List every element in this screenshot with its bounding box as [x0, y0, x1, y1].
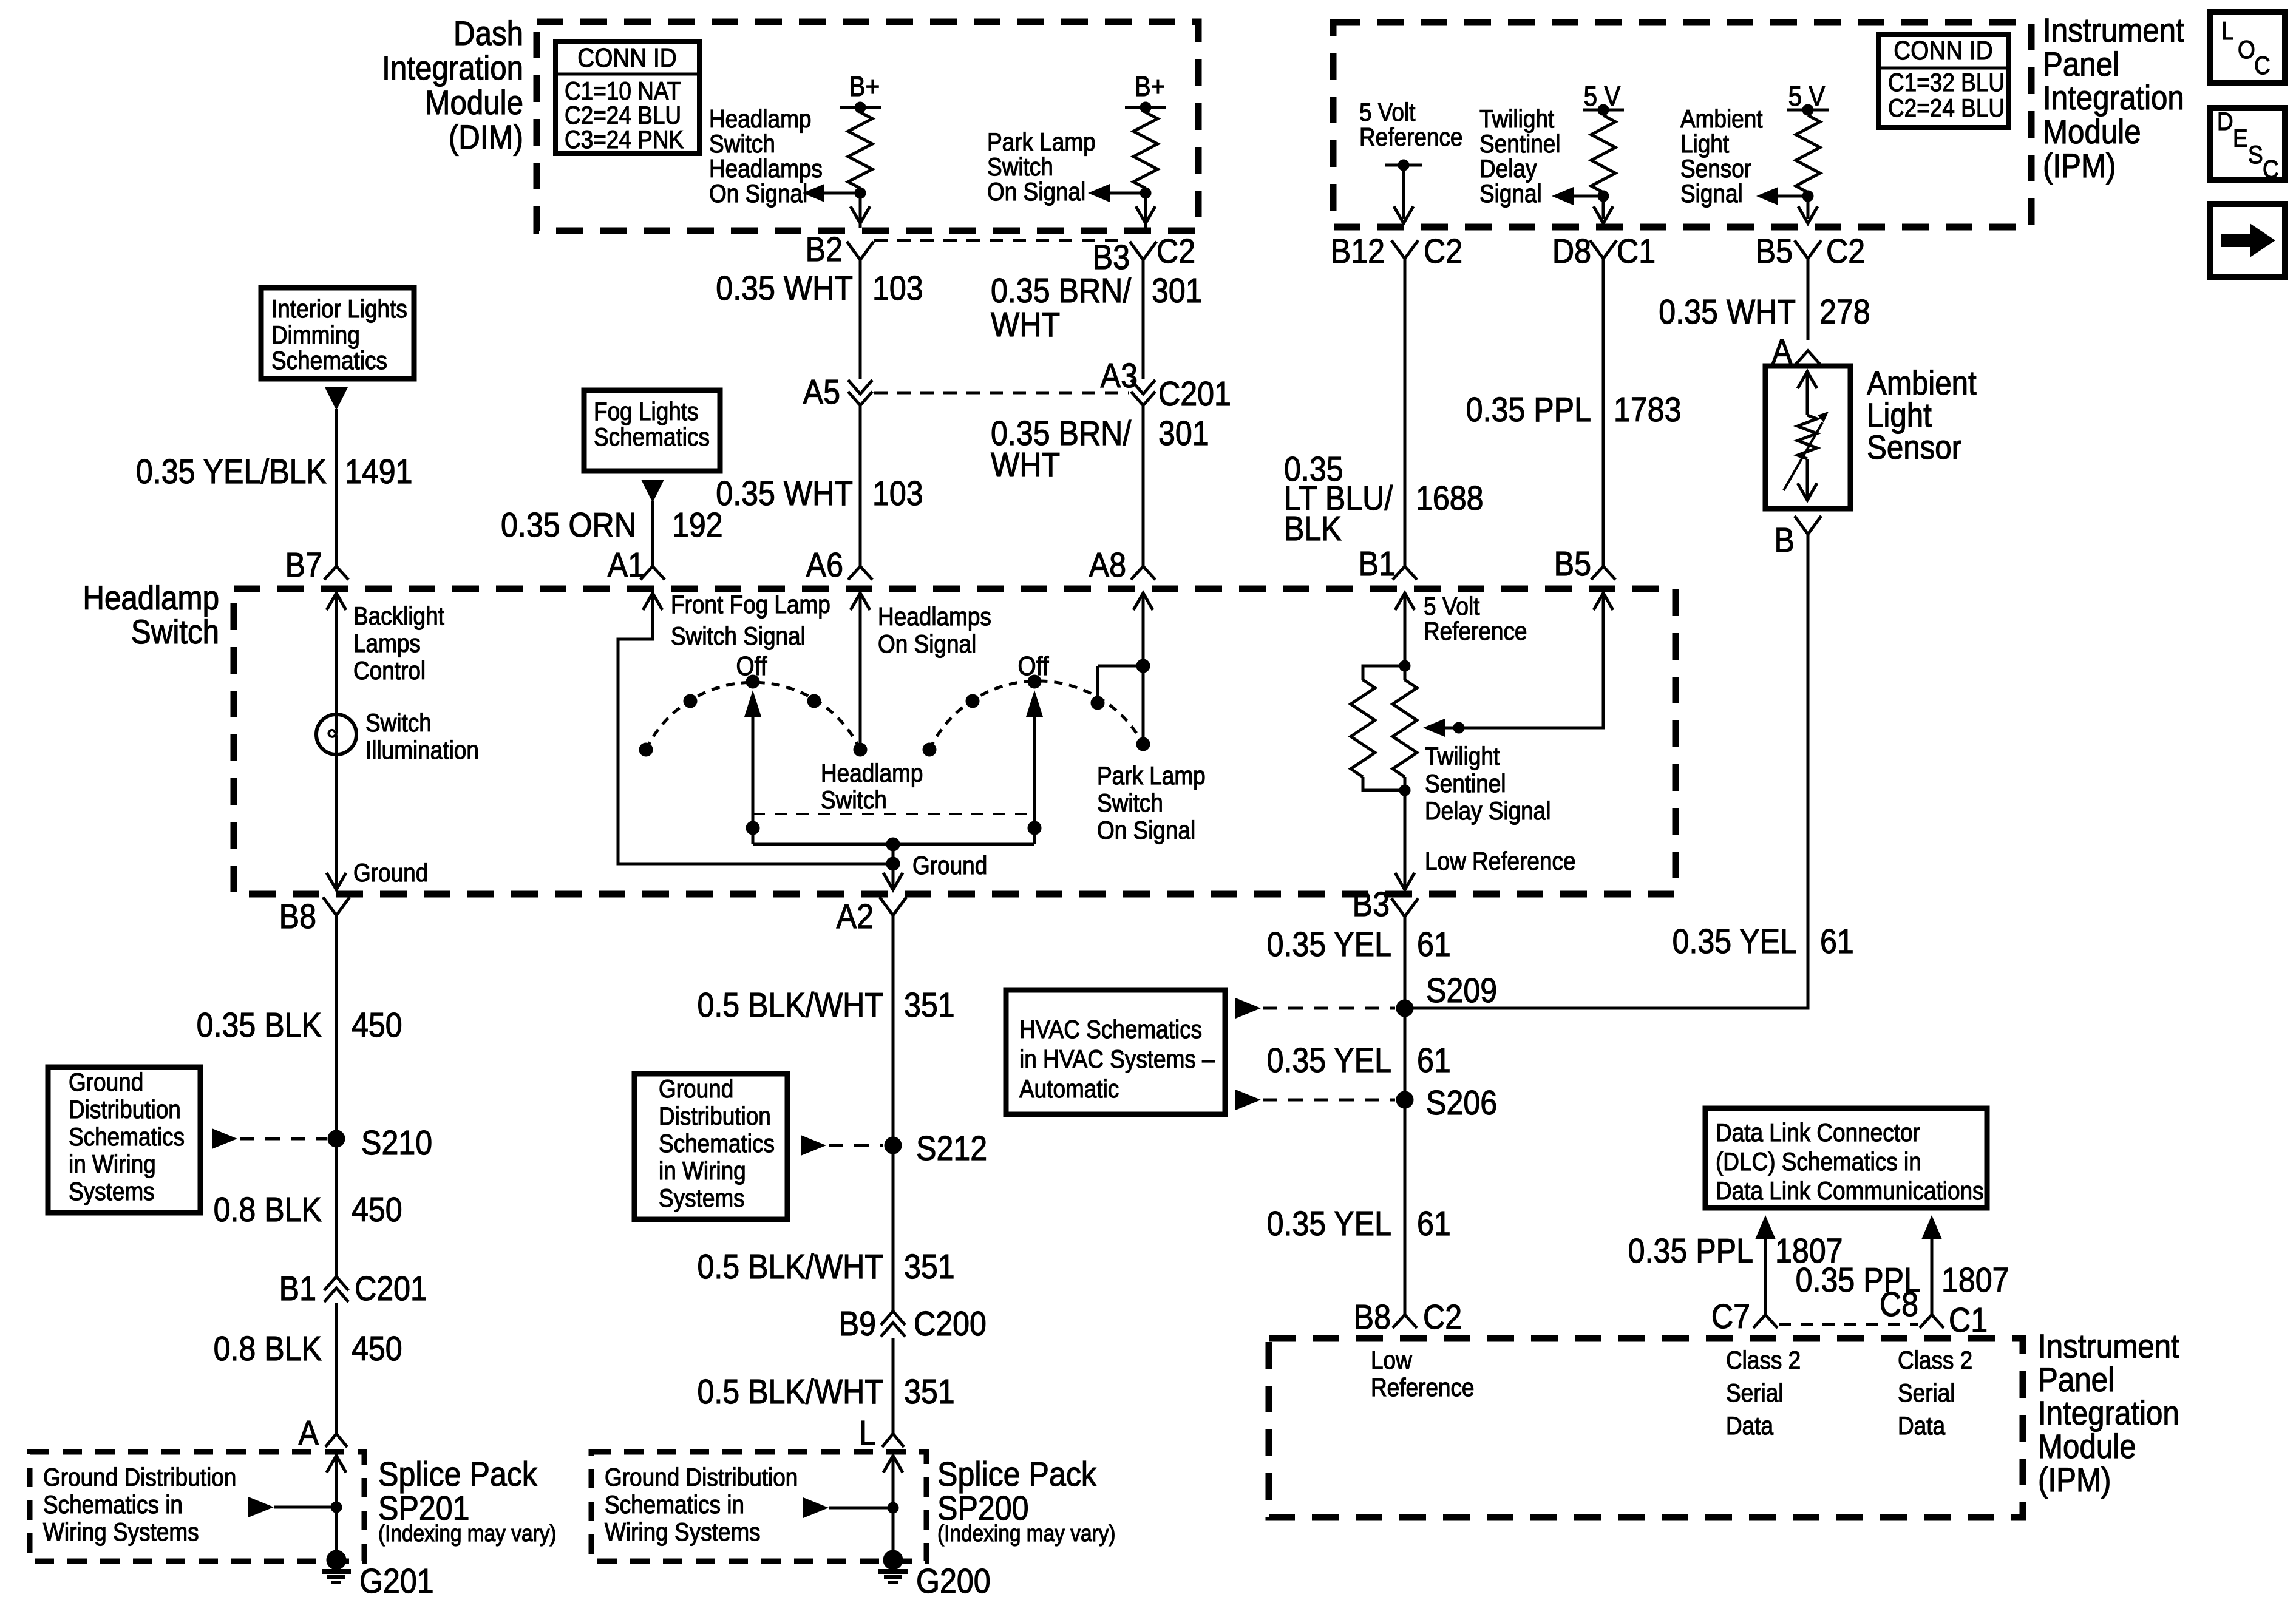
svg-text:A6: A6 [806, 546, 843, 585]
svg-text:CONN ID: CONN ID [1894, 35, 1992, 66]
svg-text:S212: S212 [916, 1129, 987, 1168]
svg-text:A: A [1772, 332, 1793, 371]
svg-text:C2: C2 [1156, 232, 1195, 271]
svg-text:Panel: Panel [2043, 46, 2119, 84]
svg-text:0.35 YEL: 0.35 YEL [1267, 1041, 1391, 1080]
svg-text:Sensor: Sensor [1680, 155, 1751, 183]
svg-text:61: 61 [1417, 925, 1451, 964]
svg-text:B: B [1775, 521, 1795, 560]
svg-text:C7: C7 [1711, 1297, 1750, 1336]
svg-text:Serial: Serial [1898, 1379, 1955, 1408]
svg-text:0.35 BLK: 0.35 BLK [197, 1006, 322, 1045]
svg-text:0.35 WHT: 0.35 WHT [716, 474, 853, 513]
svg-text:Integration: Integration [2038, 1394, 2179, 1432]
svg-text:B8: B8 [279, 897, 316, 936]
svg-text:351: 351 [904, 1372, 955, 1411]
svg-text:Signal: Signal [1479, 180, 1542, 208]
svg-text:D8: D8 [1552, 232, 1591, 271]
svg-text:Switch: Switch [821, 786, 887, 815]
svg-text:Park Lamp: Park Lamp [987, 128, 1096, 157]
svg-text:0.8 BLK: 0.8 BLK [214, 1329, 322, 1368]
svg-text:61: 61 [1417, 1204, 1451, 1243]
svg-text:1807: 1807 [1941, 1261, 2009, 1300]
svg-text:450: 450 [352, 1006, 402, 1045]
svg-text:Front Fog Lamp: Front Fog Lamp [671, 591, 830, 619]
svg-text:Schematics: Schematics [271, 347, 387, 375]
svg-text:Integration: Integration [382, 49, 523, 87]
svg-text:Schematics: Schematics [594, 423, 710, 452]
svg-text:Ground: Ground [353, 859, 428, 887]
svg-text:in HVAC Systems –: in HVAC Systems – [1019, 1045, 1215, 1074]
svg-text:301: 301 [1152, 271, 1203, 310]
svg-text:Off: Off [736, 651, 767, 681]
svg-text:(Indexing may vary): (Indexing may vary) [378, 1520, 557, 1546]
svg-text:301: 301 [1158, 414, 1209, 453]
svg-text:Twilight: Twilight [1425, 742, 1500, 771]
svg-text:1783: 1783 [1614, 390, 1682, 429]
svg-text:Switch: Switch [365, 709, 432, 737]
svg-text:B3: B3 [1353, 885, 1390, 924]
svg-text:Switch: Switch [987, 153, 1053, 181]
svg-text:A3: A3 [1101, 356, 1138, 395]
svg-text:S: S [2248, 141, 2263, 169]
svg-text:Backlight: Backlight [353, 602, 444, 631]
svg-text:0.35 YEL: 0.35 YEL [1673, 922, 1797, 961]
svg-text:Switch: Switch [131, 613, 219, 651]
svg-text:Data: Data [1726, 1412, 1773, 1440]
svg-text:A: A [299, 1414, 319, 1453]
svg-text:Delay: Delay [1479, 155, 1537, 183]
svg-text:(DIM): (DIM) [449, 118, 523, 157]
svg-text:(Indexing may vary): (Indexing may vary) [937, 1520, 1116, 1546]
svg-text:C2: C2 [1424, 232, 1462, 271]
svg-text:Distribution: Distribution [69, 1096, 181, 1124]
svg-text:C201: C201 [1158, 375, 1231, 413]
svg-text:0.35 BRN/: 0.35 BRN/ [991, 271, 1131, 310]
svg-text:0.35 WHT: 0.35 WHT [716, 269, 853, 308]
svg-text:Switch Signal: Switch Signal [671, 622, 806, 651]
svg-text:On Signal: On Signal [1097, 816, 1195, 845]
svg-text:Panel: Panel [2038, 1361, 2114, 1399]
svg-text:Illumination: Illumination [365, 736, 479, 765]
svg-text:Module: Module [425, 84, 523, 122]
svg-text:Splice Pack: Splice Pack [937, 1455, 1096, 1494]
svg-text:61: 61 [1820, 922, 1854, 961]
svg-text:B7: B7 [285, 546, 322, 585]
svg-text:Distribution: Distribution [659, 1102, 771, 1131]
svg-text:L: L [2221, 17, 2234, 46]
svg-text:1491: 1491 [345, 452, 413, 491]
svg-text:C1: C1 [1617, 232, 1656, 271]
svg-text:Schematics in: Schematics in [605, 1491, 744, 1519]
svg-text:450: 450 [352, 1329, 402, 1368]
svg-text:Ground: Ground [69, 1068, 143, 1097]
svg-text:Ambient: Ambient [1680, 105, 1763, 134]
svg-text:C8: C8 [1880, 1285, 1918, 1324]
svg-text:Class 2: Class 2 [1726, 1346, 1801, 1375]
svg-text:B8: B8 [1354, 1298, 1391, 1337]
svg-text:Reference: Reference [1359, 123, 1462, 152]
svg-text:0.5 BLK/WHT: 0.5 BLK/WHT [697, 986, 883, 1025]
svg-text:Schematics: Schematics [659, 1130, 775, 1158]
svg-text:Light: Light [1680, 130, 1729, 158]
svg-text:Module: Module [2043, 113, 2141, 151]
svg-text:A2: A2 [837, 897, 874, 936]
svg-text:B1: B1 [279, 1269, 316, 1308]
svg-text:Interior Lights: Interior Lights [271, 295, 407, 324]
svg-text:Low: Low [1371, 1346, 1412, 1375]
svg-text:B+: B+ [1135, 72, 1166, 103]
svg-text:G200: G200 [916, 1562, 991, 1601]
svg-text:Wiring Systems: Wiring Systems [605, 1518, 761, 1547]
svg-text:Data Link Connector: Data Link Connector [1716, 1119, 1920, 1147]
svg-text:Switch: Switch [709, 130, 775, 158]
svg-text:278: 278 [1819, 293, 1870, 331]
svg-text:Reference: Reference [1424, 617, 1527, 646]
svg-text:Headlamp: Headlamp [821, 759, 923, 788]
svg-text:Off: Off [1018, 651, 1049, 681]
svg-text:Ground: Ground [912, 852, 987, 880]
svg-text:Park Lamp: Park Lamp [1097, 762, 1206, 790]
svg-text:0.8 BLK: 0.8 BLK [214, 1190, 322, 1229]
svg-text:Automatic: Automatic [1019, 1075, 1119, 1103]
svg-text:450: 450 [352, 1190, 402, 1229]
svg-text:On Signal: On Signal [878, 630, 976, 659]
svg-text:C200: C200 [914, 1304, 987, 1343]
svg-text:WHT: WHT [991, 305, 1060, 344]
svg-text:Systems: Systems [659, 1184, 745, 1213]
svg-text:Instrument: Instrument [2043, 12, 2184, 50]
svg-text:Ground: Ground [659, 1075, 733, 1103]
svg-text:0.35 YEL: 0.35 YEL [1267, 925, 1391, 964]
svg-text:Delay Signal: Delay Signal [1425, 797, 1550, 825]
svg-text:Integration: Integration [2043, 79, 2184, 117]
svg-text:C2=24 BLU: C2=24 BLU [1888, 94, 2005, 123]
svg-text:Headlamp: Headlamp [709, 105, 811, 134]
svg-text:Systems: Systems [69, 1178, 155, 1206]
svg-text:351: 351 [904, 1247, 955, 1286]
svg-text:0.35 PPL: 0.35 PPL [1628, 1232, 1753, 1270]
svg-text:Headlamps: Headlamps [878, 603, 991, 631]
svg-text:Dimming: Dimming [271, 321, 360, 350]
svg-text:Headlamp: Headlamp [83, 579, 219, 617]
svg-text:0.5 BLK/WHT: 0.5 BLK/WHT [697, 1247, 883, 1286]
svg-text:C1=32 BLU: C1=32 BLU [1888, 69, 2005, 97]
svg-text:B+: B+ [849, 72, 880, 103]
svg-text:(IPM): (IPM) [2043, 147, 2116, 185]
svg-text:B12: B12 [1331, 232, 1385, 271]
svg-text:Serial: Serial [1726, 1379, 1783, 1408]
svg-text:Low Reference: Low Reference [1425, 847, 1576, 876]
svg-text:Instrument: Instrument [2038, 1327, 2179, 1366]
svg-text:Control: Control [353, 657, 426, 685]
svg-text:Data: Data [1898, 1412, 1945, 1440]
svg-text:E: E [2233, 124, 2248, 153]
svg-text:Lamps: Lamps [353, 629, 421, 658]
svg-text:L: L [859, 1414, 876, 1453]
svg-text:Wiring Systems: Wiring Systems [43, 1518, 199, 1547]
svg-text:WHT: WHT [991, 446, 1060, 484]
svg-text:0.5 BLK/WHT: 0.5 BLK/WHT [697, 1372, 883, 1411]
svg-text:5 Volt: 5 Volt [1424, 592, 1479, 621]
svg-text:(DLC) Schematics in: (DLC) Schematics in [1716, 1148, 1921, 1176]
svg-text:C2: C2 [1423, 1298, 1462, 1337]
svg-text:S206: S206 [1426, 1083, 1497, 1122]
svg-text:Ground Distribution: Ground Distribution [605, 1463, 798, 1492]
svg-text:Signal: Signal [1680, 180, 1743, 208]
svg-text:Class 2: Class 2 [1898, 1346, 1972, 1375]
svg-text:61: 61 [1417, 1041, 1451, 1080]
svg-text:in Wiring: in Wiring [659, 1157, 746, 1185]
svg-text:Splice Pack: Splice Pack [378, 1455, 537, 1494]
svg-text:0.35 ORN: 0.35 ORN [501, 506, 636, 544]
svg-text:1688: 1688 [1416, 479, 1484, 518]
svg-text:B1: B1 [1359, 544, 1396, 583]
svg-text:Dash: Dash [453, 15, 523, 53]
svg-text:C2: C2 [1826, 232, 1865, 271]
svg-text:S209: S209 [1426, 971, 1497, 1010]
svg-text:Switch: Switch [1097, 789, 1163, 818]
svg-text:A8: A8 [1089, 546, 1126, 585]
svg-text:D: D [2217, 107, 2233, 136]
svg-text:S210: S210 [361, 1124, 432, 1162]
svg-text:C3=24 PNK: C3=24 PNK [565, 126, 684, 154]
svg-text:B5: B5 [1756, 232, 1793, 271]
svg-text:Ground Distribution: Ground Distribution [43, 1463, 236, 1492]
svg-text:O: O [2238, 36, 2255, 64]
svg-text:B9: B9 [839, 1304, 876, 1343]
svg-text:A5: A5 [803, 373, 840, 412]
svg-text:192: 192 [672, 506, 723, 544]
svg-text:Fog Lights: Fog Lights [594, 398, 699, 426]
svg-text:in Wiring: in Wiring [69, 1150, 156, 1179]
svg-text:0.35 YEL/BLK: 0.35 YEL/BLK [136, 452, 327, 491]
svg-text:0.35 PPL: 0.35 PPL [1466, 390, 1591, 429]
svg-text:Sentinel: Sentinel [1479, 130, 1561, 158]
svg-text:Headlamps: Headlamps [709, 155, 823, 183]
svg-text:351: 351 [904, 986, 955, 1025]
svg-text:Sentinel: Sentinel [1425, 770, 1506, 798]
svg-text:CONN ID: CONN ID [577, 42, 676, 73]
svg-text:A1: A1 [608, 546, 645, 585]
svg-text:0.35 WHT: 0.35 WHT [1659, 293, 1796, 331]
svg-text:C1: C1 [1949, 1301, 1988, 1340]
svg-text:BLK: BLK [1284, 509, 1342, 548]
svg-text:5 V: 5 V [1584, 81, 1621, 112]
svg-text:103: 103 [872, 474, 923, 513]
svg-text:C201: C201 [355, 1269, 427, 1308]
svg-text:Module: Module [2038, 1428, 2136, 1466]
svg-text:Sensor: Sensor [1867, 429, 1961, 467]
svg-text:On Signal: On Signal [987, 178, 1085, 206]
svg-text:G201: G201 [359, 1562, 434, 1601]
svg-text:HVAC Schematics: HVAC Schematics [1019, 1015, 1202, 1044]
svg-text:C: C [2263, 155, 2279, 184]
svg-text:0.35 YEL: 0.35 YEL [1267, 1204, 1391, 1243]
svg-text:B2: B2 [806, 230, 843, 269]
svg-text:Data Link Communications: Data Link Communications [1716, 1177, 1984, 1205]
svg-text:Schematics: Schematics [69, 1123, 185, 1151]
svg-text:On Signal: On Signal [709, 180, 807, 208]
svg-text:5 Volt: 5 Volt [1359, 98, 1415, 127]
svg-text:Twilight: Twilight [1479, 105, 1554, 134]
svg-text:103: 103 [872, 269, 923, 308]
svg-text:Schematics in: Schematics in [43, 1491, 183, 1519]
svg-text:5 V: 5 V [1788, 81, 1826, 112]
svg-text:Reference: Reference [1371, 1374, 1474, 1402]
svg-text:C: C [2254, 52, 2271, 80]
svg-text:(IPM): (IPM) [2038, 1461, 2111, 1499]
svg-text:B5: B5 [1554, 544, 1591, 583]
